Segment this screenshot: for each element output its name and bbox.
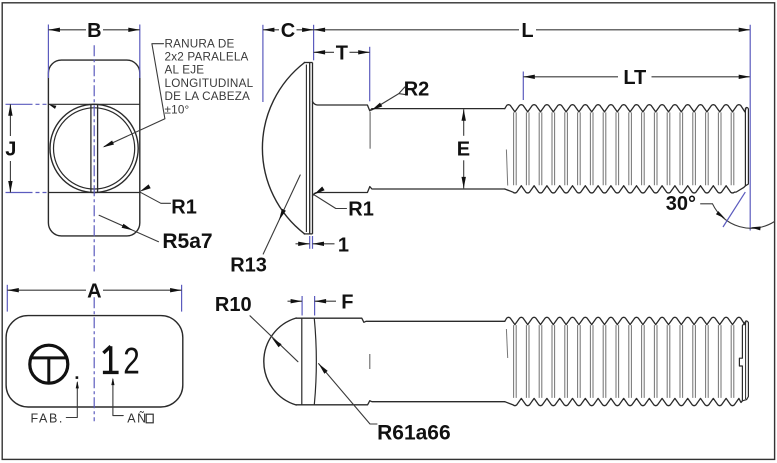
bolt end face lines (upper bolt) (745, 107, 748, 185)
manufacturer mark stem (47, 358, 50, 383)
radius R1 arrow (front view) (140, 184, 151, 191)
angle 30 dimension arc (713, 204, 775, 228)
radius R1 leader (front view) (140, 192, 171, 204)
dimension J arrow down (8, 181, 12, 193)
svg-text:R61a66: R61a66 (377, 422, 451, 445)
thread runout line (gray) (506, 150, 507, 186)
head face view rounded rectangle outline (6, 316, 183, 407)
slot annotation leader (105, 44, 165, 147)
dimension LT arrow left (523, 75, 535, 79)
dimension 1 extension lines (309, 236, 311, 249)
dimension A line left part (7, 289, 86, 291)
vertical centerline of head face view (93, 297, 95, 421)
dimension J line lower part (9, 161, 11, 193)
svg-text:R1: R1 (348, 198, 374, 220)
fillet runout mark (lower bolt) (369, 354, 371, 369)
angle 30 leader tick (700, 203, 712, 205)
head dome inner circle (54, 108, 135, 189)
head dome tangent line top (48, 103, 139, 105)
bolt head top cap line (304, 62, 313, 64)
ANO label square O (146, 414, 153, 423)
button head dome silhouette (264, 318, 296, 405)
ANO leader arrow (111, 378, 114, 386)
shank bottom line (lower bolt) (296, 401, 505, 405)
bolt end cap with slot (lower bolt) (739, 321, 748, 401)
dimension A extension line right (181, 285, 183, 312)
thread crest profile bottom (upper bolt) (505, 186, 746, 193)
head front view rounded square outline (48, 60, 139, 236)
radius R10 arrow (272, 338, 282, 348)
dimension B line right part (103, 29, 140, 31)
dimension F extension line right (314, 296, 316, 316)
svg-text:J: J (5, 139, 16, 161)
head dome outer circle (50, 104, 138, 192)
svg-text:R1: R1 (171, 197, 197, 219)
svg-text:AÑ: AÑ (127, 412, 148, 426)
svg-text:R13: R13 (230, 254, 267, 276)
thread crest profile top (upper bolt) (505, 105, 746, 112)
svg-text:L: L (521, 20, 533, 42)
dimension E line lower (463, 160, 465, 188)
svg-text:T: T (336, 43, 348, 65)
button head crown arc (314, 318, 316, 404)
dimension 1 arrow left (298, 242, 310, 246)
svg-text:R2: R2 (404, 79, 430, 101)
angle 30 arrow at end face line (751, 227, 761, 231)
dimension T line (314, 51, 334, 53)
svg-text:2: 2 (123, 340, 140, 381)
dimension B arrow left (48, 28, 60, 32)
dimension F line left tail (288, 300, 303, 302)
radius R13 leader (263, 175, 300, 254)
dimension B extension line right (139, 25, 141, 79)
FAB leader arrow (76, 381, 79, 389)
bolt head washer face line 2 (312, 63, 314, 234)
svg-text:FAB.: FAB. (31, 412, 65, 426)
ANO leader line (113, 380, 123, 416)
small corner arrow at head tangent (49, 104, 57, 109)
dimension A line right part (103, 289, 182, 291)
thread flank lines (upper bolt) (514, 112, 734, 185)
radius R61a66 arrow (319, 364, 328, 374)
dimension T arrow left (314, 50, 326, 54)
dimension C line (263, 29, 279, 31)
radius R1 arrow (side view) (314, 187, 325, 195)
dimension 1 line left (296, 243, 310, 245)
svg-text:F: F (341, 292, 353, 314)
dimension A extension line left (6, 285, 8, 312)
thread flank lines (lower bolt) (514, 325, 734, 398)
shank bottom line under head with fillet (313, 187, 505, 196)
dimension T extension line right (369, 47, 371, 102)
manufacturer mark chord (30, 356, 67, 359)
thread crest profile bottom (lower bolt) (505, 398, 743, 405)
fillet runout line (gray) (369, 112, 371, 149)
dimension C arrow right (302, 28, 314, 32)
dimension E line upper (463, 109, 465, 136)
dimension J extension line top (6, 103, 47, 105)
head dome tangent line bottom (48, 192, 139, 194)
dimension J line upper part (9, 104, 11, 136)
radius R5a7 leader (99, 215, 158, 241)
slot left edge (90, 104, 92, 192)
year digit 1 (103, 346, 119, 372)
bolt head dome inner edge line (305, 65, 307, 233)
shank top line (lower bolt) (296, 318, 505, 322)
dimension F line right tail (315, 300, 336, 302)
vertical centerline of head front view (93, 45, 95, 271)
manufacturer mark dot (76, 376, 79, 379)
button head face line (301, 318, 303, 404)
dimension L arrow right (739, 28, 751, 32)
chamfer angle reference line (blue) (723, 192, 745, 227)
dimension B arrow right (128, 28, 140, 32)
radius R2 leader (372, 87, 406, 110)
svg-text:1: 1 (338, 235, 349, 257)
radius R2 arrow (371, 103, 382, 111)
dimension B line left part (48, 29, 86, 31)
thread crest profile top (lower bolt) (505, 317, 746, 324)
radius R13 arrow (279, 209, 286, 220)
dimension F arrow left (291, 299, 303, 303)
dimension C/T extension line at face (313, 25, 315, 61)
angle 30 arrow at chamfer line (716, 211, 725, 219)
thread runout line (lower bolt) (506, 329, 507, 358)
slot right edge (97, 104, 99, 192)
bolt head washer face line 1 (309, 63, 311, 234)
dimension E arrow up (462, 109, 466, 121)
dimension E arrow down (462, 177, 466, 189)
slot annotation leader arrow (103, 141, 114, 148)
svg-text:A: A (87, 280, 101, 302)
svg-text:30°: 30° (666, 193, 696, 215)
svg-text:R5a7: R5a7 (162, 230, 212, 253)
dimension A arrow left (7, 288, 18, 292)
manufacturer mark circle (30, 345, 68, 383)
svg-text:C: C (281, 20, 295, 42)
dimension T arrow right (358, 50, 370, 54)
dimension F extension line left (301, 296, 303, 316)
dimension LT line (523, 76, 618, 78)
svg-text:E: E (457, 138, 470, 160)
FAB leader line (66, 383, 77, 418)
dimension C extension line left (262, 25, 264, 102)
dimension F arrow right (315, 299, 327, 303)
dimension J arrow up (8, 104, 12, 116)
extension line right end (L/LT/30deg) (749, 25, 751, 231)
bolt head bottom cap line (304, 233, 313, 235)
dimension J extension line bottom (6, 192, 47, 194)
dimension LT extension line left (522, 72, 524, 101)
dimension A arrow right (170, 288, 182, 292)
dimension L line (314, 29, 519, 31)
svg-text:B: B (87, 20, 101, 42)
bolt head dome silhouette (side view) (262, 63, 304, 234)
dimension 1 line right (313, 243, 335, 245)
shank top line under head with fillet (313, 102, 505, 111)
radius R5a7 arrow (122, 224, 133, 231)
dimension 1 arrow right (313, 242, 325, 246)
dimension LT arrow right (739, 75, 751, 79)
radius R1 leader (side view) (314, 195, 347, 209)
dimension B extension line left (47, 25, 49, 79)
dimension C arrow left (263, 28, 275, 32)
dimension L arrow left (314, 28, 326, 32)
svg-text:LT: LT (623, 67, 646, 89)
svg-text:R10: R10 (215, 294, 252, 316)
radius R10 leader (250, 316, 298, 362)
radius R61a66 leader (319, 364, 377, 424)
